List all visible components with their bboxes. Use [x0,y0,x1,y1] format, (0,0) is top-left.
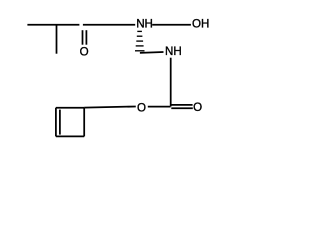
wire [136,45,144,47]
svg-text:OH: OH [192,18,209,31]
svg-text:NH: NH [165,45,182,58]
wire [83,108,85,137]
svg-text:O: O [193,101,202,114]
wire [137,30,142,32]
wire [56,135,84,137]
wire [56,107,84,109]
wire [83,24,135,26]
svg-text:O: O [80,46,89,59]
wire [170,58,172,107]
wire [27,24,79,26]
wire [136,40,143,42]
svg-text:O: O [137,101,146,114]
wire [84,107,136,108]
wire [152,24,191,26]
wire [55,108,57,137]
svg-text:NH: NH [136,18,153,31]
wire [85,30,87,45]
wire [171,107,193,109]
wire [56,25,58,54]
wire [135,50,145,52]
wire [171,104,192,106]
wire [137,35,143,37]
wire [148,106,171,108]
wire [82,30,84,45]
wire [140,51,164,54]
wire [59,110,61,135]
